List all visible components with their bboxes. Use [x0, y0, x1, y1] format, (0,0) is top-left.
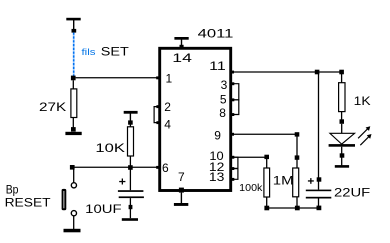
push button Bp RESET	[62, 170, 77, 230]
wire pin 10	[232, 156, 267, 158]
svg-text:14: 14	[172, 51, 192, 65]
IC U1 4011 box	[160, 48, 231, 190]
node 10UF bottom junction	[129, 205, 133, 209]
wire pin 6 (button to IC)	[74, 166, 160, 168]
wire bottom rail	[267, 207, 319, 209]
ground under push button	[64, 229, 81, 233]
node junction pin9/1M	[295, 132, 300, 136]
node junction J1 (pin1 / 27K / SET)	[71, 76, 76, 81]
capacitor 10UF	[118, 190, 144, 218]
wire pin 9	[231, 133, 297, 136]
pin 6 stub mark	[156, 166, 159, 169]
node 10K top junction	[128, 120, 133, 124]
wire fils SET (blue)	[73, 33, 75, 76]
svg-text:10UF: 10UF	[85, 202, 121, 216]
power symbol above 10K	[124, 111, 138, 121]
wire pin 1	[76, 77, 160, 79]
bridge rect pins 2-4 (left edge)	[154, 105, 159, 124]
resistor 1K	[339, 74, 345, 121]
pin 1 stub mark	[156, 76, 159, 79]
node 10K bottom junction	[128, 165, 133, 170]
power symbol V+ top-left	[66, 18, 80, 33]
wire 1M riser	[296, 136, 298, 168]
ground pin 7	[174, 193, 188, 206]
svg-text:1K: 1K	[354, 96, 371, 108]
svg-text:1: 1	[166, 72, 173, 86]
svg-text:RESET: RESET	[5, 198, 51, 210]
node button top junction	[70, 165, 75, 170]
svg-text:2: 2	[164, 100, 171, 114]
svg-text:4011: 4011	[198, 28, 234, 40]
node junction 1K/LED	[340, 119, 345, 124]
node junction below LED	[340, 153, 345, 157]
LED arrows	[358, 126, 371, 145]
wire 22UF riser	[318, 74, 320, 190]
bridge rect pins 10-12 (right edge)	[231, 156, 238, 169]
capacitor 22UF	[306, 190, 332, 208]
wire pin 11	[231, 71, 342, 74]
ground under 27K	[65, 127, 81, 135]
node junction pin11/22UF	[315, 70, 320, 75]
svg-text:100k: 100k	[239, 182, 263, 194]
node junction 22UF bottom	[317, 206, 322, 211]
node pin 7 junction	[179, 188, 184, 193]
resistor 1M	[293, 168, 299, 208]
power symbol pin 14	[174, 37, 188, 49]
svg-text:6: 6	[162, 161, 169, 175]
svg-text:22UF: 22UF	[334, 188, 370, 200]
LED D1	[329, 124, 355, 166]
svg-text:3: 3	[221, 78, 228, 92]
node junction 22UF top	[317, 177, 322, 181]
svg-text:10K: 10K	[95, 141, 125, 155]
svg-text:9: 9	[214, 129, 221, 143]
node junction 1M mid	[295, 155, 300, 159]
svg-text:7: 7	[178, 170, 185, 184]
plus sign of 10UF	[119, 179, 125, 185]
ground under 10UF	[122, 218, 138, 221]
node junction pin11/1K	[339, 70, 344, 75]
bridge rect pins 3-5 (right edge)	[231, 82, 239, 100]
resistor 100k	[264, 168, 270, 208]
svg-text:4: 4	[164, 118, 171, 132]
wire 10K bottom to 10UF	[129, 170, 131, 191]
resistor 10K	[128, 124, 134, 167]
svg-text:27K: 27K	[39, 100, 66, 114]
svg-text:fils: fils	[82, 47, 96, 58]
bridge rect pins 5-8 (right edge)	[231, 98, 239, 116]
bridge rect pins 12-13 (right edge)	[231, 167, 238, 181]
svg-text:SET: SET	[101, 45, 130, 59]
node junction 1M bottom	[295, 206, 300, 211]
resistor 27K	[71, 80, 77, 129]
svg-text:5: 5	[220, 92, 227, 106]
svg-text:11: 11	[209, 59, 226, 73]
svg-text:13: 13	[209, 170, 225, 184]
node junction pin10/100k	[264, 155, 269, 159]
ground under LED	[335, 165, 349, 168]
wire 100k riser	[266, 159, 268, 168]
node junction 100k bottom	[264, 206, 269, 211]
svg-text:1M: 1M	[273, 175, 294, 187]
plus sign of 22UF	[308, 178, 314, 184]
svg-text:Bp: Bp	[6, 184, 19, 196]
svg-text:8: 8	[219, 106, 226, 120]
